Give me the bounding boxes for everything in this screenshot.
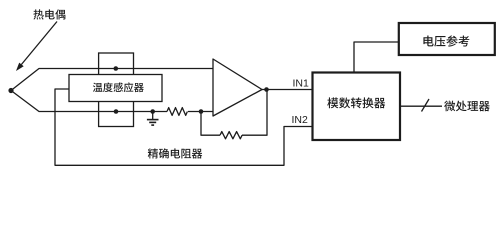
svg-text:IN1: IN1 — [293, 78, 310, 90]
svg-text:IN2: IN2 — [292, 114, 309, 126]
